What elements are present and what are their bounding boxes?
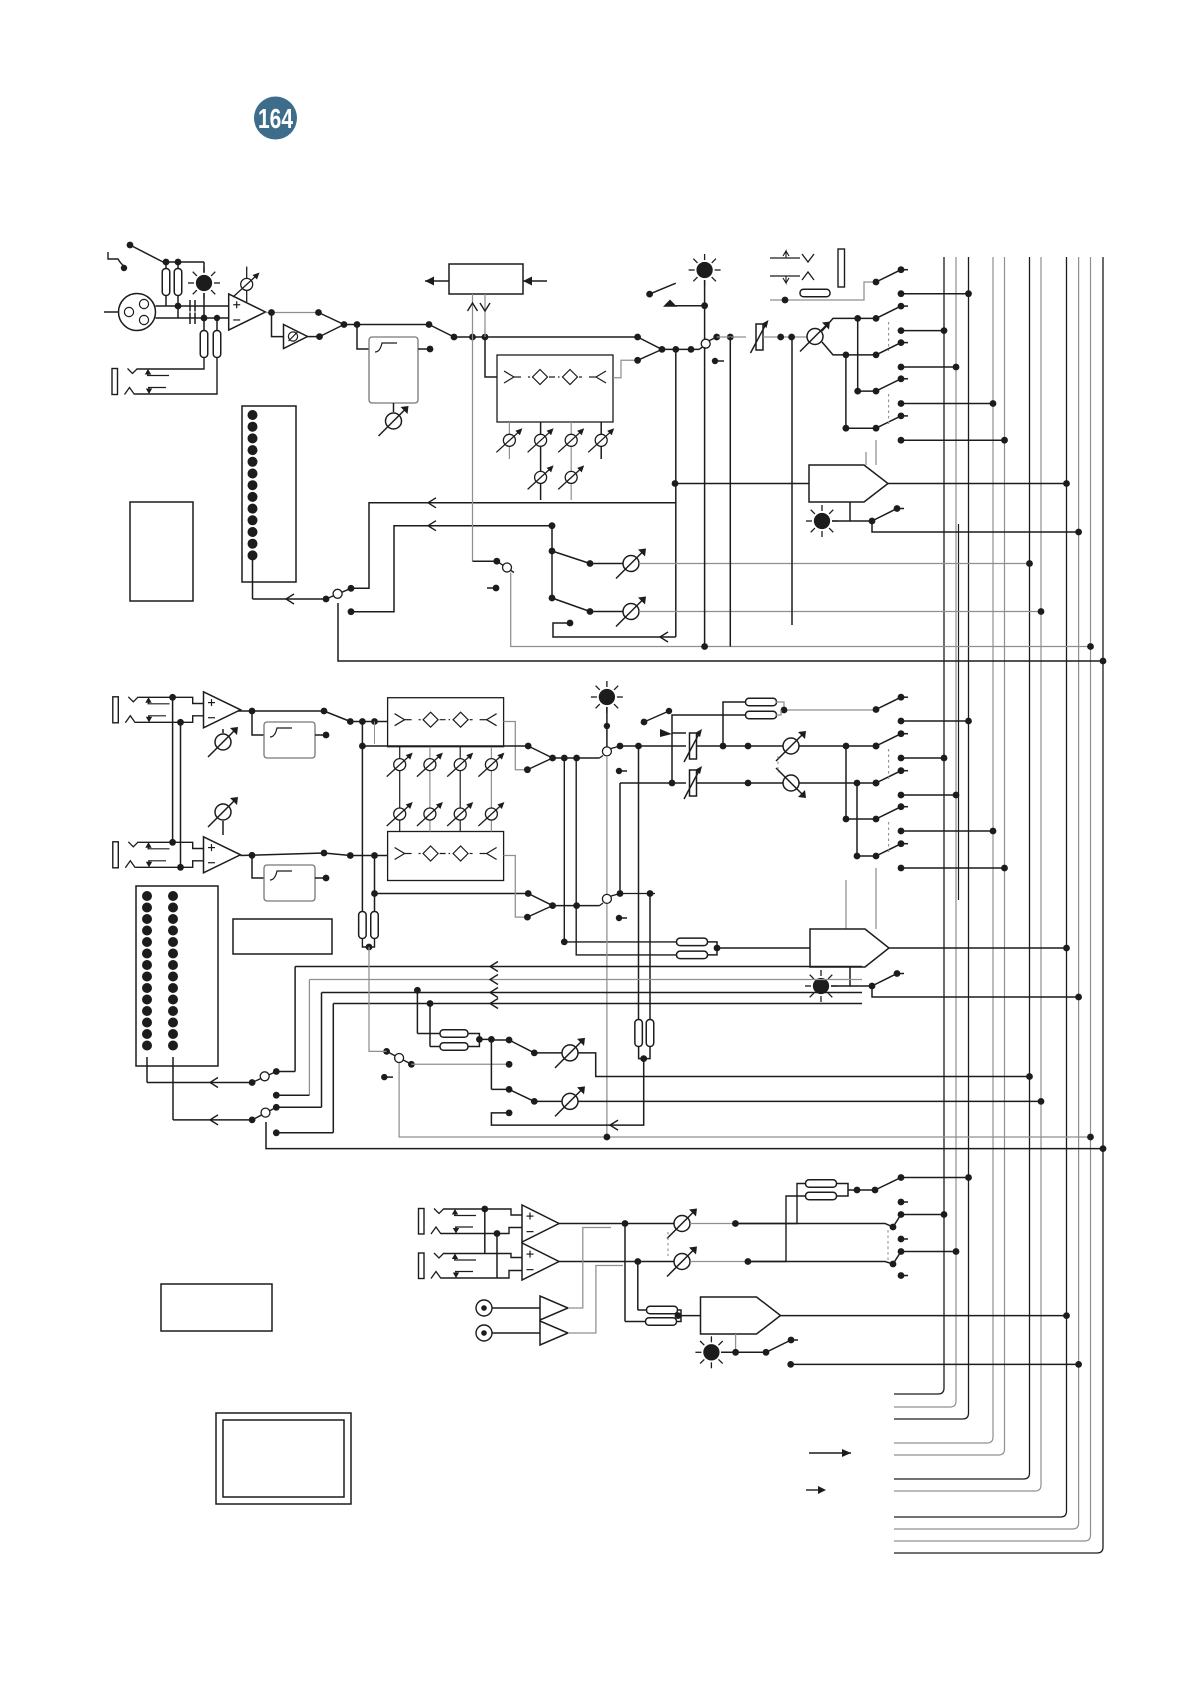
sum join — [708, 942, 811, 955]
junction — [549, 548, 556, 555]
stub line — [901, 843, 908, 845]
wire — [216, 318, 218, 331]
phones resistor R — [646, 1318, 677, 1326]
rise — [600, 903, 604, 906]
bus feed wire — [901, 757, 944, 759]
monitor jack 2 — [419, 1253, 425, 1279]
junction — [587, 560, 594, 567]
bus line 8 — [894, 257, 1067, 1517]
junction — [641, 719, 648, 726]
wire — [393, 403, 395, 412]
junction — [640, 1055, 647, 1062]
eq select R — [528, 894, 552, 906]
bypass link — [361, 722, 363, 912]
meter lever — [326, 588, 351, 599]
wire — [791, 337, 793, 625]
switch lever — [876, 697, 901, 709]
wire — [308, 336, 320, 338]
aux throw2 wire — [491, 1059, 643, 1126]
feed node — [898, 327, 905, 334]
flow arrow down — [480, 303, 490, 311]
normal contact arrow — [454, 1255, 456, 1261]
assign rail L — [845, 746, 847, 819]
insert jack ring hook — [802, 272, 814, 280]
wire — [553, 757, 600, 759]
pfl link wire — [411, 1063, 509, 1065]
gang link — [888, 822, 890, 852]
junction — [506, 1110, 513, 1117]
junction — [525, 743, 532, 750]
meter select switch 2 — [261, 1108, 270, 1117]
stereo meter LED box — [136, 886, 218, 1066]
ring hook — [125, 716, 135, 723]
insert block — [449, 264, 523, 294]
2tr out L — [568, 1228, 611, 1309]
wire — [763, 336, 807, 338]
pan bottom — [822, 342, 876, 355]
junction — [688, 346, 695, 353]
insert jack tip hook — [802, 254, 814, 262]
junction — [635, 743, 642, 750]
bus tap — [1026, 1073, 1033, 1080]
mon source switch — [503, 563, 512, 572]
to meter arrow — [428, 521, 436, 531]
gang/pent feed R — [576, 758, 677, 955]
bus tap — [1026, 560, 1033, 567]
gain pot L — [208, 727, 238, 757]
meter wire — [173, 1119, 252, 1121]
st switch contact 3 — [873, 780, 880, 787]
wire — [177, 295, 179, 318]
wire — [559, 1223, 625, 1225]
stub line — [901, 378, 908, 380]
pan top — [822, 318, 876, 331]
bus line 11 — [894, 257, 1103, 1553]
junction — [506, 1037, 513, 1044]
overload LED — [806, 505, 838, 537]
switch lever — [876, 306, 901, 318]
insert jack sleeve — [838, 249, 845, 287]
node — [493, 585, 500, 592]
junction — [787, 1361, 794, 1368]
capacitor C2 — [190, 313, 195, 325]
gang link — [888, 749, 890, 779]
junction — [561, 755, 568, 762]
bus line 7 — [894, 257, 1041, 1491]
monitor pot L — [667, 1209, 697, 1239]
wire — [638, 1261, 674, 1263]
switch lever — [876, 771, 901, 783]
bypass wire L — [375, 745, 529, 747]
junction — [672, 480, 679, 487]
wire — [735, 1334, 737, 1352]
cr wire — [735, 1184, 806, 1224]
junction — [366, 944, 373, 951]
junction — [177, 719, 184, 726]
mic preamp U1 — [229, 294, 266, 330]
junction — [873, 743, 880, 750]
hpfL feed — [252, 711, 264, 735]
junction — [646, 291, 653, 298]
bus line 5 — [894, 257, 1005, 1455]
junction — [714, 945, 721, 952]
switch lever — [766, 1340, 791, 1352]
junction — [175, 303, 182, 310]
bus feed wire — [901, 403, 993, 405]
junction — [666, 708, 672, 714]
channel path — [717, 336, 746, 338]
junction — [371, 718, 378, 725]
eqR out — [504, 856, 528, 918]
feed node — [898, 400, 905, 407]
wire — [534, 1052, 562, 1054]
switch throw stub — [898, 413, 905, 420]
junction — [371, 890, 378, 897]
junction — [854, 853, 861, 860]
junction — [701, 643, 708, 650]
wire — [858, 390, 876, 392]
junction — [347, 852, 354, 859]
overload LED — [805, 970, 837, 1002]
stub line — [901, 415, 908, 417]
eq pot — [528, 428, 554, 452]
junction — [777, 334, 784, 341]
pad resistor R4 — [213, 331, 221, 358]
wire — [782, 745, 784, 747]
bus feed wire — [901, 794, 956, 796]
aux 2 send wire — [639, 611, 1041, 613]
wire — [799, 745, 876, 747]
2TR RCA L — [476, 1300, 492, 1316]
switch lever — [552, 598, 590, 612]
HPF block L — [264, 722, 315, 758]
bus tap — [1038, 608, 1045, 615]
junction — [323, 596, 330, 603]
flow arrow — [490, 962, 498, 972]
cr resistor R — [806, 1192, 837, 1200]
switch lever — [509, 1040, 534, 1053]
bus feed wire — [901, 720, 969, 722]
normal contact arrow — [455, 1227, 457, 1233]
st path L — [620, 745, 686, 747]
junction — [347, 718, 354, 725]
gang link — [888, 322, 890, 351]
junction — [381, 1074, 387, 1080]
filter curve glyph — [270, 871, 292, 880]
aux 2 pot — [616, 597, 646, 627]
junction — [869, 518, 876, 525]
insert resistor — [800, 289, 830, 297]
feed node — [898, 364, 905, 371]
wire — [625, 1321, 647, 1323]
st switch contact 4 — [873, 816, 880, 823]
riser wire — [619, 783, 621, 894]
switch throw stub — [898, 266, 905, 273]
bus feed wire — [901, 867, 1005, 869]
wire — [308, 980, 310, 1096]
wire — [865, 452, 867, 465]
eq out link — [638, 349, 662, 360]
meter source wire 1 — [351, 503, 676, 589]
meter LEDs — [248, 410, 258, 560]
junction — [617, 743, 624, 750]
bus line 9 — [894, 257, 1079, 1529]
wire — [418, 348, 430, 350]
gang/pent feed L — [564, 758, 677, 942]
wire — [690, 1261, 748, 1263]
eq stem — [540, 422, 542, 500]
switch lever — [509, 1089, 534, 1101]
line input jack — [112, 369, 118, 395]
wire — [697, 782, 783, 784]
flow arrow — [490, 999, 498, 1009]
2tr out R — [568, 1266, 623, 1334]
bus tap — [965, 718, 972, 725]
wire — [238, 710, 324, 712]
bus tap — [990, 400, 997, 407]
stub line — [901, 305, 908, 307]
eq pot — [588, 428, 614, 452]
switch lever — [552, 551, 590, 564]
filter curve glyph — [270, 728, 292, 737]
sum feed R — [649, 894, 651, 1021]
junction — [675, 1312, 682, 1319]
eq pot — [496, 428, 522, 452]
meter send wire — [295, 966, 862, 968]
feed node — [898, 718, 905, 725]
junction — [732, 1220, 739, 1227]
hpf freq pot — [379, 406, 409, 436]
insert feed — [723, 702, 746, 746]
bus line 2 — [894, 257, 956, 1407]
bus tap — [1100, 1145, 1107, 1152]
block — [161, 1284, 272, 1331]
phones join — [677, 1310, 701, 1322]
junction — [214, 315, 220, 321]
jack tip wire — [138, 357, 205, 369]
eq pot stem — [429, 747, 431, 832]
junction — [561, 939, 568, 946]
rise — [600, 756, 604, 759]
wire — [553, 905, 600, 907]
balance pot R — [776, 768, 806, 798]
flow arrow — [610, 1120, 618, 1130]
normal link — [496, 1234, 498, 1279]
wire — [857, 855, 876, 857]
hpf feed — [357, 325, 369, 350]
phantom resistor R2 — [174, 269, 182, 296]
junction — [854, 780, 861, 787]
wire — [637, 1262, 639, 1311]
hpf select R — [324, 853, 350, 856]
jack wires R — [138, 842, 203, 848]
aux send — [578, 1053, 1030, 1077]
feed node — [898, 1248, 905, 1255]
junction — [634, 357, 641, 364]
junction — [617, 890, 624, 897]
junction — [672, 346, 679, 353]
wire — [265, 312, 318, 314]
wire — [417, 1033, 441, 1035]
channel path — [344, 324, 429, 326]
EQ block channel 1 — [497, 355, 613, 422]
meter LED box — [242, 406, 296, 582]
led link — [832, 502, 850, 521]
eq pot stem — [399, 747, 401, 832]
on/off select — [644, 711, 669, 722]
junction — [854, 388, 861, 395]
meter select switch — [260, 1072, 269, 1081]
junction — [567, 620, 574, 627]
junction — [854, 1187, 861, 1194]
gang link — [667, 1232, 669, 1256]
switch throw stub — [898, 694, 905, 701]
junction — [745, 780, 752, 787]
stub line — [897, 508, 904, 510]
junction — [371, 852, 378, 859]
bus feed wire — [901, 1251, 956, 1253]
hpf select switch — [429, 325, 454, 338]
pointer — [660, 729, 672, 737]
junction — [525, 890, 532, 897]
bus tap — [1001, 437, 1008, 444]
wire — [611, 746, 620, 749]
wire — [473, 560, 497, 562]
wire — [491, 1088, 509, 1090]
outer frame block — [216, 1413, 351, 1504]
switch contact 2 — [873, 315, 880, 322]
junction — [616, 768, 622, 774]
bypass resistor — [371, 912, 379, 939]
monitor pot R — [667, 1247, 697, 1277]
wire — [845, 880, 847, 929]
mon lever — [497, 561, 514, 572]
wire — [690, 1223, 735, 1225]
junction — [316, 333, 323, 340]
assign rail L — [857, 318, 859, 391]
junction — [873, 780, 880, 787]
junction — [426, 321, 433, 328]
switch throw stub — [898, 730, 905, 737]
junction — [268, 309, 275, 316]
ground node — [121, 265, 127, 271]
junction — [701, 302, 708, 309]
wire — [222, 729, 224, 733]
eq select L — [528, 746, 552, 758]
wire — [241, 853, 325, 856]
junction — [494, 1230, 501, 1237]
switch lever — [876, 844, 901, 856]
stereo bus driver — [810, 929, 889, 967]
junction — [249, 852, 256, 859]
bus tap — [1075, 994, 1082, 1001]
bus tap — [1075, 1361, 1082, 1368]
wire — [350, 721, 387, 723]
channel fader — [751, 320, 769, 353]
join — [639, 1046, 650, 1059]
junction — [587, 608, 594, 615]
junction — [481, 1206, 488, 1213]
EQ stage glyphs — [504, 371, 530, 383]
switch lever — [872, 974, 897, 987]
fold wire — [553, 623, 676, 637]
junction — [506, 1086, 513, 1093]
wire — [697, 745, 783, 747]
post-eq feed — [675, 349, 677, 637]
wire — [559, 1261, 638, 1263]
junction — [763, 1349, 770, 1356]
junction — [488, 1036, 495, 1043]
input cold — [156, 317, 230, 319]
flow arrow — [490, 975, 498, 985]
switch throw stub — [788, 1337, 795, 1344]
switch throw stub — [898, 303, 905, 310]
wire — [492, 1332, 540, 1334]
meter arrow — [210, 1078, 218, 1088]
junction — [869, 983, 876, 990]
meter wire — [147, 1082, 252, 1084]
phase select switch — [319, 313, 345, 325]
cr resistor L — [806, 1180, 837, 1188]
wire — [203, 318, 205, 331]
mute link — [699, 347, 703, 349]
junction — [604, 723, 610, 729]
monitor jack 1 — [419, 1209, 425, 1235]
channel on/off switch — [701, 339, 710, 348]
eq freq pot — [478, 802, 504, 826]
junction — [427, 1000, 434, 1007]
phones amp — [701, 1297, 781, 1334]
switch lever — [130, 245, 163, 262]
bus feed wire — [901, 366, 956, 368]
stub — [619, 770, 627, 772]
assign rail R — [845, 355, 847, 428]
chassis ground symbol — [108, 252, 124, 266]
mix resistor — [635, 1020, 643, 1047]
junction — [634, 334, 641, 341]
switch throw stub — [898, 1199, 905, 1206]
signal flow arrow — [809, 1452, 851, 1454]
cr wiring — [444, 1209, 522, 1215]
meter wire — [253, 598, 327, 600]
stub line — [901, 1275, 908, 1277]
junction — [321, 850, 328, 857]
normal contact arrow — [454, 1210, 456, 1216]
normal contact arrow — [147, 370, 149, 376]
mon tap wire — [472, 337, 474, 561]
block — [233, 919, 332, 954]
meter lever — [252, 1107, 276, 1120]
bus tap — [953, 792, 960, 799]
channel on/off L — [602, 747, 611, 756]
meter LEDs — [142, 891, 178, 1051]
junction — [175, 259, 182, 266]
feed node — [898, 1211, 905, 1218]
junction — [782, 297, 789, 304]
junction — [788, 334, 795, 341]
junction — [843, 425, 850, 432]
phantom switch node — [127, 242, 134, 249]
bus tap — [1063, 1312, 1070, 1319]
eq stem — [508, 422, 510, 459]
bus tap — [1063, 480, 1070, 487]
XLR connector J1 — [119, 294, 156, 331]
bus tap — [965, 1174, 972, 1181]
bypass wire R — [375, 893, 529, 895]
wire — [294, 967, 296, 1072]
junction — [323, 732, 330, 739]
wire — [146, 1057, 148, 1083]
